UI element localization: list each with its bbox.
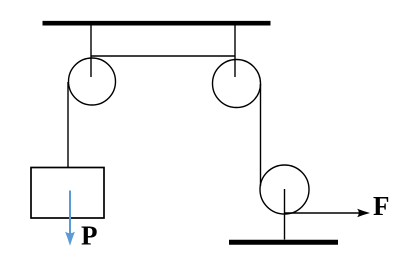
svg-text:P: P xyxy=(81,221,98,251)
ground bar xyxy=(229,240,338,245)
block P xyxy=(31,168,104,219)
rope right (pulley 2 to pulley 3) xyxy=(260,84,262,186)
force arrow P (blue) xyxy=(65,191,75,246)
stem from pulley 3 to ground xyxy=(284,189,286,240)
pulley 1 (left) xyxy=(69,58,116,105)
ceiling bar xyxy=(43,21,271,26)
force arrow F xyxy=(285,209,370,217)
pulley 3 (bottom) xyxy=(260,165,309,214)
wire right hanger xyxy=(234,26,236,78)
pulley 2 (right) xyxy=(213,60,261,108)
wire connector between pulleys xyxy=(91,55,235,57)
wire left hanger xyxy=(90,26,92,78)
rope left (pulley 1 to block) xyxy=(67,82,69,168)
svg-text:F: F xyxy=(373,191,390,221)
